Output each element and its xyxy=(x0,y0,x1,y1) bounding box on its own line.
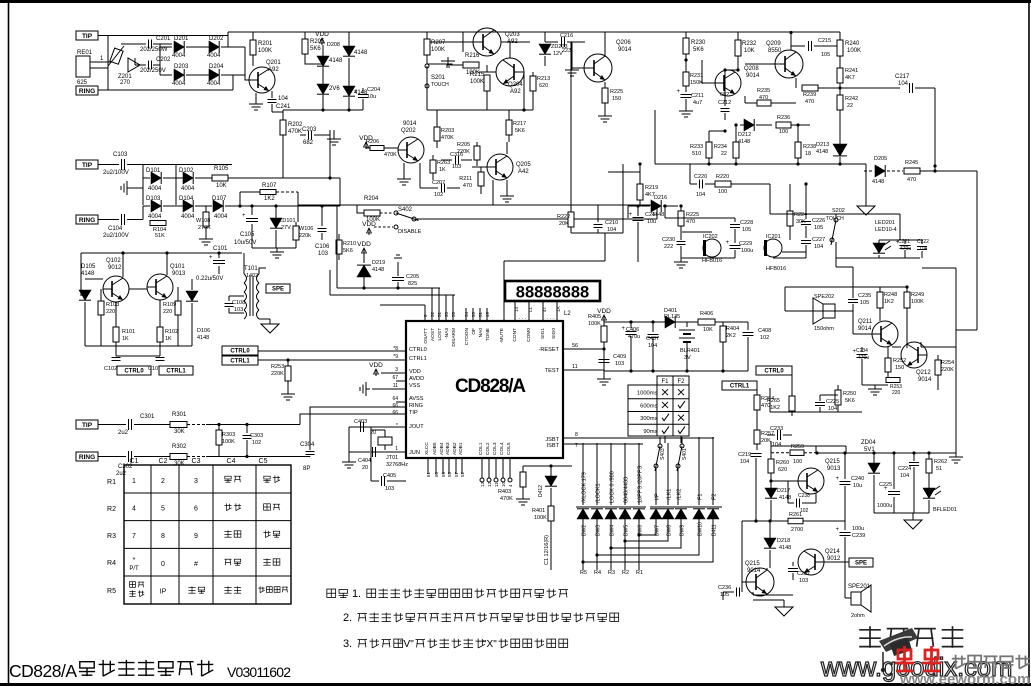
bus y521 audio xyxy=(742,520,788,522)
wire RESET pin to R405 xyxy=(563,348,604,350)
svg-text:R213: R213 xyxy=(537,76,550,82)
wire ISBT bus xyxy=(563,443,643,445)
svg-text:D102: D102 xyxy=(179,168,194,174)
svg-text:R210: R210 xyxy=(343,241,356,247)
svg-text:1402: 1402 xyxy=(246,273,258,279)
svg-text:Q203: Q203 xyxy=(505,32,520,38)
capacitor C105 10u/50V xyxy=(251,206,253,215)
svg-text:R207: R207 xyxy=(431,40,446,46)
svg-text:9014: 9014 xyxy=(746,73,760,79)
svg-text:10K: 10K xyxy=(216,183,227,189)
connector TIP upper xyxy=(76,31,98,40)
svg-text:AOST: AOST xyxy=(430,328,436,341)
resistor R104 xyxy=(150,221,166,226)
svg-text:5K6: 5K6 xyxy=(343,248,353,254)
svg-text:202/250W: 202/250W xyxy=(140,47,168,53)
svg-text:9014: 9014 xyxy=(858,326,872,332)
svg-text:CTRL1: CTRL1 xyxy=(166,369,186,375)
ground right of S201 xyxy=(427,63,448,65)
svg-text:F1: F1 xyxy=(698,494,704,500)
svg-text:10: 10 xyxy=(501,481,506,487)
svg-text:SPE: SPE xyxy=(272,287,284,293)
svg-text:8P: 8P xyxy=(303,466,310,472)
capacitor C407 104 xyxy=(652,322,654,332)
svg-text:202/250V: 202/250V xyxy=(140,68,166,74)
svg-text:9014: 9014 xyxy=(918,377,932,383)
resistor R265 1K2 xyxy=(791,375,793,396)
svg-text:4004: 4004 xyxy=(148,214,162,220)
wire bus y205 long xyxy=(298,204,657,206)
ground crystal xyxy=(348,427,350,458)
svg-text:D411: D411 xyxy=(712,524,718,536)
connector TIP third xyxy=(76,420,98,429)
border frame bottom bar xyxy=(0,683,1031,686)
svg-text:AVSS: AVSS xyxy=(409,396,424,402)
resistor R105 xyxy=(212,175,228,181)
svg-text:4004: 4004 xyxy=(172,53,186,59)
diode D401 xyxy=(665,316,675,328)
svg-text:100: 100 xyxy=(793,459,802,465)
connector RING upper xyxy=(76,86,98,95)
svg-text:5K6: 5K6 xyxy=(845,398,855,404)
svg-text:DW7: DW7 xyxy=(655,525,661,536)
resistor R231 150K xyxy=(685,60,687,72)
svg-text:4148: 4148 xyxy=(329,58,343,64)
svg-text:DISARM: DISARM xyxy=(451,328,457,347)
wire C304 to IC TIP RING pins xyxy=(300,414,406,425)
svg-text:Q215: Q215 xyxy=(745,561,760,567)
speaker SPE202 xyxy=(823,304,835,318)
IC U1 left pin stubs xyxy=(381,372,406,374)
opto triangle xyxy=(128,58,140,72)
svg-text:100K: 100K xyxy=(847,48,861,54)
svg-text:CONT: CONT xyxy=(512,328,518,342)
wire bus y295 xyxy=(330,294,455,296)
svg-text:HFB016: HFB016 xyxy=(702,258,722,264)
svg-text:RING: RING xyxy=(79,88,95,95)
diode D106 mid xyxy=(186,291,198,301)
zener ZD203 12V xyxy=(544,32,546,42)
svg-text:COL3: COL3 xyxy=(492,442,498,455)
svg-text:R259: R259 xyxy=(791,444,804,450)
svg-text:R1: R1 xyxy=(636,570,643,576)
svg-text:1: 1 xyxy=(395,446,398,452)
ground below Q202 xyxy=(403,163,405,175)
transistor Q211 xyxy=(872,321,898,347)
resistor R203 470K xyxy=(436,110,438,127)
capacitor C102 xyxy=(112,357,121,359)
svg-text:RL135: RL135 xyxy=(664,314,680,320)
resistor R301 xyxy=(170,422,187,428)
svg-text:R302: R302 xyxy=(172,444,187,450)
svg-text:1000u: 1000u xyxy=(877,503,892,509)
svg-text:270K: 270K xyxy=(198,225,211,231)
svg-text:4148: 4148 xyxy=(872,179,884,185)
svg-text:C405: C405 xyxy=(383,473,396,479)
svg-text:C205: C205 xyxy=(406,274,419,280)
svg-text:66: 66 xyxy=(392,410,398,416)
svg-text:D213: D213 xyxy=(816,142,829,148)
svg-text:/LOCK1: /LOCK1 xyxy=(596,483,602,503)
svg-text:C108: C108 xyxy=(232,300,245,306)
wire R205 junction xyxy=(305,60,323,64)
svg-text:620: 620 xyxy=(539,83,548,89)
svg-text:3: 3 xyxy=(395,367,398,373)
svg-text:4148: 4148 xyxy=(81,271,95,277)
diode D202 xyxy=(209,41,219,53)
svg-text:+: + xyxy=(242,213,246,219)
svg-text:JOUT: JOUT xyxy=(409,424,424,430)
svg-text:R204: R204 xyxy=(364,196,379,202)
IC bottom pin stubs group1 xyxy=(427,459,429,474)
svg-text:R222: R222 xyxy=(557,214,570,220)
svg-text:COM0: COM0 xyxy=(526,328,532,342)
svg-text:VDD: VDD xyxy=(409,369,421,375)
resistor R201 xyxy=(252,32,254,40)
svg-text:D208: D208 xyxy=(327,42,340,48)
svg-text:4148: 4148 xyxy=(779,495,791,501)
svg-text:C403: C403 xyxy=(354,419,367,425)
svg-text:1K2: 1K2 xyxy=(770,405,780,411)
svg-text:0: 0 xyxy=(161,561,165,568)
wire monitor bottom xyxy=(770,411,862,413)
svg-text:10u: 10u xyxy=(647,219,656,225)
svg-text:1: 1 xyxy=(132,478,136,485)
resistor R401 100K xyxy=(548,506,554,521)
transistor Q214 9012 xyxy=(798,549,824,575)
wire Q212 collector to bus xyxy=(920,342,922,347)
svg-text:D103: D103 xyxy=(146,196,161,202)
option table check marks xyxy=(662,389,668,395)
svg-text:D412: D412 xyxy=(538,485,544,497)
resistor R252 150 xyxy=(887,347,889,358)
resistor R250 5K6 xyxy=(837,385,839,390)
capacitor C302 xyxy=(98,456,126,458)
wire Q216 links xyxy=(742,581,747,583)
svg-text:470K: 470K xyxy=(384,152,397,158)
svg-text:Q214: Q214 xyxy=(825,549,840,555)
svg-text:R215: R215 xyxy=(470,72,485,78)
resistor R249 100K xyxy=(906,287,908,292)
svg-text:R301: R301 xyxy=(172,412,187,418)
svg-text:103: 103 xyxy=(318,251,329,257)
resistor R241 4K7 xyxy=(839,64,841,68)
transistor Q202 xyxy=(398,137,424,163)
svg-text:0.22u/50V: 0.22u/50V xyxy=(196,276,223,282)
battery BT401 3V xyxy=(686,322,688,327)
wire Q206 links xyxy=(604,32,606,56)
svg-text:4004: 4004 xyxy=(214,214,228,220)
svg-text:60: 60 xyxy=(434,471,439,477)
wire Q211 links xyxy=(879,318,881,321)
wire Q209 emitter to R239 xyxy=(795,78,797,88)
svg-text:ADB1: ADB1 xyxy=(458,442,464,455)
svg-text:RING: RING xyxy=(79,454,95,461)
svg-text:LOCK 0 /980: LOCK 0 /980 xyxy=(610,471,616,503)
ground below Q201 xyxy=(255,93,257,100)
svg-text:Q205: Q205 xyxy=(516,162,531,168)
speaker SPE201 xyxy=(851,592,861,605)
left audio rail xyxy=(741,521,743,592)
resistor R205b 220K xyxy=(476,142,478,146)
svg-text:R231: R231 xyxy=(690,73,703,79)
svg-text:22: 22 xyxy=(847,103,853,109)
svg-text:470: 470 xyxy=(686,219,695,225)
svg-text:300ms: 300ms xyxy=(640,416,658,422)
svg-text:*9: *9 xyxy=(393,354,398,360)
svg-text:/LK1: /LK1 xyxy=(667,489,673,500)
svg-text:/LK2: /LK2 xyxy=(677,489,683,500)
svg-text:.: . xyxy=(358,588,361,600)
svg-text:C105: C105 xyxy=(240,232,255,238)
svg-text:13: 13 xyxy=(480,481,485,487)
resistor R236 100 xyxy=(776,122,791,128)
svg-text:VDD: VDD xyxy=(369,362,383,369)
svg-text:104: 104 xyxy=(814,244,823,250)
svg-text:150K: 150K xyxy=(690,80,703,86)
svg-text:D101: D101 xyxy=(146,168,161,174)
wire lower junction bus y110 xyxy=(283,109,363,111)
svg-text:R4: R4 xyxy=(107,560,116,567)
svg-text:2: 2 xyxy=(161,478,165,485)
resistor R259 100 xyxy=(790,450,804,456)
resistor R233 510 xyxy=(708,131,710,142)
svg-text:Q209: Q209 xyxy=(766,41,781,47)
svg-text:C106: C106 xyxy=(315,244,330,250)
svg-text:OF: OF xyxy=(471,328,477,335)
wire right bus x956 xyxy=(955,268,957,453)
svg-text:88888888: 88888888 xyxy=(516,284,589,302)
svg-text:TIP: TIP xyxy=(82,422,93,429)
resistor R248 1K2 xyxy=(879,287,881,292)
capacitor C225 1000u xyxy=(893,453,895,489)
svg-text:Q204: Q204 xyxy=(508,82,523,88)
svg-text:58: 58 xyxy=(447,471,452,477)
connector RING third xyxy=(76,452,98,461)
capacitor C104 xyxy=(98,219,119,221)
svg-text:R262: R262 xyxy=(934,459,947,465)
resistor R303 100K xyxy=(218,425,220,431)
svg-text:C214: C214 xyxy=(645,212,658,218)
transistor Q216 9014 xyxy=(746,568,774,596)
diodes DW2-DW6 xyxy=(577,509,589,519)
wire Q212 base xyxy=(892,346,901,348)
svg-text:SPE: SPE xyxy=(855,561,867,567)
capacitor C207 102 xyxy=(420,187,438,189)
svg-text:R103: R103 xyxy=(106,302,119,308)
svg-text:DW3: DW3 xyxy=(596,525,602,536)
svg-text:61: 61 xyxy=(426,471,431,477)
svg-text:51K: 51K xyxy=(155,233,165,239)
svg-text:220: 220 xyxy=(163,309,172,315)
svg-text:R303: R303 xyxy=(222,432,235,438)
svg-text:7: 7 xyxy=(132,533,136,540)
capacitor C241 xyxy=(271,91,273,98)
svg-text:10K: 10K xyxy=(744,48,755,54)
svg-text:220: 220 xyxy=(892,390,901,396)
box CTRL0 right xyxy=(756,366,792,375)
resistor R234 22 xyxy=(735,125,737,142)
capacitor C240 10u xyxy=(844,453,846,479)
svg-text:10u/50V: 10u/50V xyxy=(234,240,256,246)
svg-text:R248: R248 xyxy=(884,292,897,298)
zener ZD101 xyxy=(275,206,277,218)
svg-text:R2: R2 xyxy=(622,570,629,576)
wire CONT to upper net xyxy=(503,261,505,322)
wires to IC top pins xyxy=(431,288,433,322)
diode matrix right bar xyxy=(650,506,722,508)
svg-text:104: 104 xyxy=(772,442,781,448)
wire Q204 links xyxy=(509,42,511,58)
svg-text:DW4: DW4 xyxy=(610,525,616,536)
resistor R206 470K xyxy=(370,146,384,151)
svg-text:4004: 4004 xyxy=(207,81,221,87)
capacitor C212 682 xyxy=(724,96,726,106)
display DS1 8-digit LED frame xyxy=(505,281,600,301)
svg-text:S402: S402 xyxy=(398,207,413,213)
svg-text:ADB3: ADB3 xyxy=(445,442,451,455)
svg-text:S202: S202 xyxy=(832,208,845,214)
svg-text:.: . xyxy=(349,612,352,624)
svg-text:90ms: 90ms xyxy=(643,429,657,435)
relay RE01 body xyxy=(76,56,90,77)
svg-text:C225: C225 xyxy=(826,399,839,405)
watermark bug logo red xyxy=(895,646,941,671)
svg-text:DW9: DW9 xyxy=(680,525,686,536)
svg-text:49: 49 xyxy=(485,311,490,317)
resistor R239 470 xyxy=(802,85,818,91)
svg-text:IC202: IC202 xyxy=(703,234,718,240)
svg-text:P/T: P/T xyxy=(129,566,139,572)
svg-text:"X": "X" xyxy=(483,639,497,650)
capacitor C238 102 xyxy=(788,502,794,504)
svg-text:D203: D203 xyxy=(174,64,189,70)
svg-text:R3: R3 xyxy=(608,570,615,576)
svg-text:4K7: 4K7 xyxy=(845,75,855,81)
svg-text:F1: F1 xyxy=(661,379,669,385)
svg-text:C5: C5 xyxy=(259,458,268,465)
diode D102 xyxy=(175,165,177,206)
svg-text:100u: 100u xyxy=(741,248,753,254)
svg-text:LED201: LED201 xyxy=(875,220,895,226)
svg-text:I/P: I/P xyxy=(655,493,661,500)
wire bus y466 under IC xyxy=(523,465,572,467)
resistor R260 620 xyxy=(768,459,774,473)
mic IC202 HFB016 xyxy=(703,239,721,257)
capacitor C203 682 xyxy=(300,134,306,136)
svg-text:R224: R224 xyxy=(794,212,807,218)
svg-text:12: 12 xyxy=(487,481,492,487)
wire JOUT to crystal xyxy=(371,426,406,428)
svg-text:SIG0: SIG0 xyxy=(551,328,557,339)
ground below Q205 xyxy=(506,180,508,192)
svg-text:270: 270 xyxy=(120,80,131,86)
svg-text:ADB4: ADB4 xyxy=(439,442,445,455)
svg-text:67: 67 xyxy=(392,375,398,381)
svg-text:4148: 4148 xyxy=(738,139,750,145)
svg-text:CD828/A: CD828/A xyxy=(455,376,526,397)
svg-text:C203: C203 xyxy=(302,127,317,133)
svg-text:D216: D216 xyxy=(654,195,667,201)
capacitor C222 104 xyxy=(921,240,923,244)
svg-text:Q101: Q101 xyxy=(170,264,185,270)
svg-text:2V6: 2V6 xyxy=(329,86,340,92)
box CTRL1 mid xyxy=(222,356,258,365)
svg-text:R265: R265 xyxy=(767,398,780,404)
resistor R224 30K xyxy=(789,184,791,211)
capacitor C204 10u xyxy=(362,88,364,93)
svg-text:CTRL1: CTRL1 xyxy=(730,384,750,390)
switch S401 xyxy=(681,437,683,444)
wire Q201 emitter to R202 xyxy=(272,112,283,120)
capacitor C220 104 xyxy=(690,183,697,185)
svg-text:470K: 470K xyxy=(441,135,454,141)
svg-text:100K: 100K xyxy=(588,321,601,327)
svg-text:RE01: RE01 xyxy=(77,50,93,56)
resistor R106 220k xyxy=(295,222,297,226)
resistor R213 620 xyxy=(532,72,534,76)
svg-text:600ms: 600ms xyxy=(640,403,658,409)
svg-text:103: 103 xyxy=(799,578,808,584)
resistor R257 20K xyxy=(756,425,758,430)
svg-text:R202: R202 xyxy=(288,122,303,128)
ground below ZD203 xyxy=(565,66,579,76)
svg-text:R4: R4 xyxy=(594,570,601,576)
wire TIP to bridge xyxy=(98,35,228,37)
svg-text:220k: 220k xyxy=(299,233,311,239)
box SPE lower xyxy=(849,558,873,567)
ground below T101 xyxy=(269,319,271,324)
svg-text:11: 11 xyxy=(494,482,499,487)
svg-text:R3: R3 xyxy=(107,533,116,540)
transistor Q203 xyxy=(473,28,501,56)
svg-text:C235: C235 xyxy=(858,293,871,299)
svg-text:100: 100 xyxy=(718,189,727,195)
capacitor C404 20p xyxy=(372,447,374,457)
capacitor C226 105 xyxy=(805,214,807,219)
svg-text:R401: R401 xyxy=(532,508,545,514)
diode D205 4148 xyxy=(322,45,324,56)
left column tails xyxy=(582,518,584,570)
wire Q203 collector emitter xyxy=(430,41,473,43)
capacitor C234 470u xyxy=(861,347,863,352)
diode D213 xyxy=(833,144,847,156)
capacitor C239 100u xyxy=(844,521,846,530)
svg-text:2u2: 2u2 xyxy=(118,430,129,436)
wire monitor top xyxy=(785,286,880,288)
diodes DW7-D411 xyxy=(650,509,662,519)
svg-text:4004: 4004 xyxy=(207,53,221,59)
svg-text:104: 104 xyxy=(648,343,657,349)
svg-text:104: 104 xyxy=(607,227,616,233)
svg-text:C1 12/16(R): C1 12/16(R) xyxy=(544,535,550,565)
svg-text:R253: R253 xyxy=(271,364,284,370)
box SPE upper xyxy=(266,284,290,293)
svg-text:C238: C238 xyxy=(798,493,810,499)
wire top of LED block xyxy=(879,239,922,241)
capacitor C108 103 xyxy=(228,296,230,301)
transistor Q208 xyxy=(715,70,741,96)
ground left arm xyxy=(121,181,131,195)
svg-text:Q215: Q215 xyxy=(825,459,840,465)
svg-text:L1: L1 xyxy=(528,306,533,312)
svg-text:CTRL0: CTRL0 xyxy=(230,349,250,355)
resistor R220 100 xyxy=(715,181,731,187)
svg-text:C236: C236 xyxy=(718,585,731,591)
top bus y32 xyxy=(228,31,840,33)
wire right verticals region B xyxy=(339,178,341,206)
svg-text:20: 20 xyxy=(362,465,368,471)
